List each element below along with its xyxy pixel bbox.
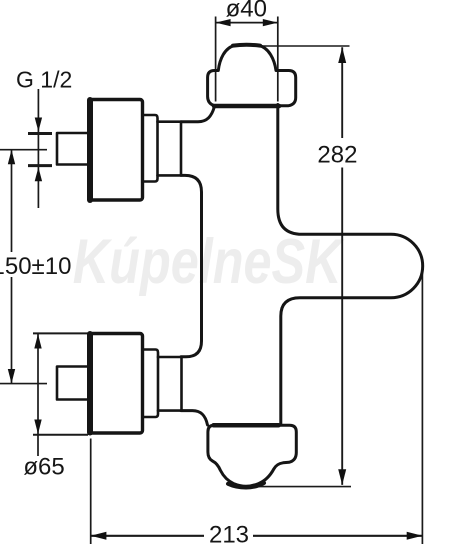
lower handle left edge thick [87,334,93,433]
bottom outlet bowl bottom thick [228,483,264,488]
tick 150 bottom [0,383,47,385]
tick G 1/2 top [28,132,52,135]
arrow dia40 right [263,19,278,26]
extension line 282 top [258,45,350,47]
arrow 213 left [91,532,107,540]
arrow 213 right [407,532,423,540]
arrow G12 up [35,167,42,181]
dimension line dia40 [216,22,278,24]
extension line dia40 right [277,17,279,102]
tick G 1/2 bottom [28,164,52,167]
arrow dia40 left [216,19,231,26]
arrow dia65 down [34,420,41,435]
body right side with bulge [278,105,423,426]
arrow G12 down [35,118,42,132]
top cap outline [208,45,296,106]
lower handle step1 [143,350,159,418]
arrow 282 bottom [338,469,346,485]
dimension line 150 upper segment [11,150,13,252]
arrow dia65 up [34,334,41,349]
dimension line dia65 [37,334,39,456]
upper handle stem [57,133,90,165]
upper handle body [90,100,143,201]
upper handle step2 [158,122,182,176]
extension line dia40 left [215,17,217,102]
extension line 213 right [421,267,423,544]
body lower-left fillet to outlet [181,411,208,425]
tick dia65 bottom [33,434,88,436]
arrow 282 top [338,47,346,63]
body upper-left fillet to cap [181,107,214,122]
lower handle body [90,334,143,434]
body left side [181,175,202,356]
svg-text:ø40: ø40 [226,0,267,23]
tick 150 top [0,149,47,151]
dimension line 282 upper segment [341,47,343,138]
lower handle stem [57,367,90,400]
dimension line 282 lower segment [341,168,343,485]
lower handle step2 [158,357,182,411]
top cap dome top thick [233,43,260,48]
arrow 150 down [8,369,15,384]
extension line 213 left [90,439,92,544]
svg-text:KúpelneSK: KúpelneSK [73,227,345,298]
arrow 150 up [8,150,15,165]
upper handle step1 [143,115,158,182]
svg-text:282: 282 [317,142,357,169]
extension line 282 bottom [246,486,351,488]
bottom outlet outline [208,425,296,486]
leader line G 1/2 [37,89,39,208]
tick dia65 top [33,332,88,334]
upper handle left edge thick [87,100,93,200]
dimension line 213 right segment [253,535,422,537]
svg-text:G 1/2: G 1/2 [16,67,72,93]
top cap bottom thick line [214,104,279,109]
svg-text:213: 213 [209,522,249,544]
svg-text:ø65: ø65 [23,454,64,481]
bottom outlet top thick line [214,423,279,428]
dimension line 150 lower segment [11,277,13,384]
dimension line 213 left segment [91,535,204,537]
svg-text:150±10: 150±10 [0,253,71,280]
